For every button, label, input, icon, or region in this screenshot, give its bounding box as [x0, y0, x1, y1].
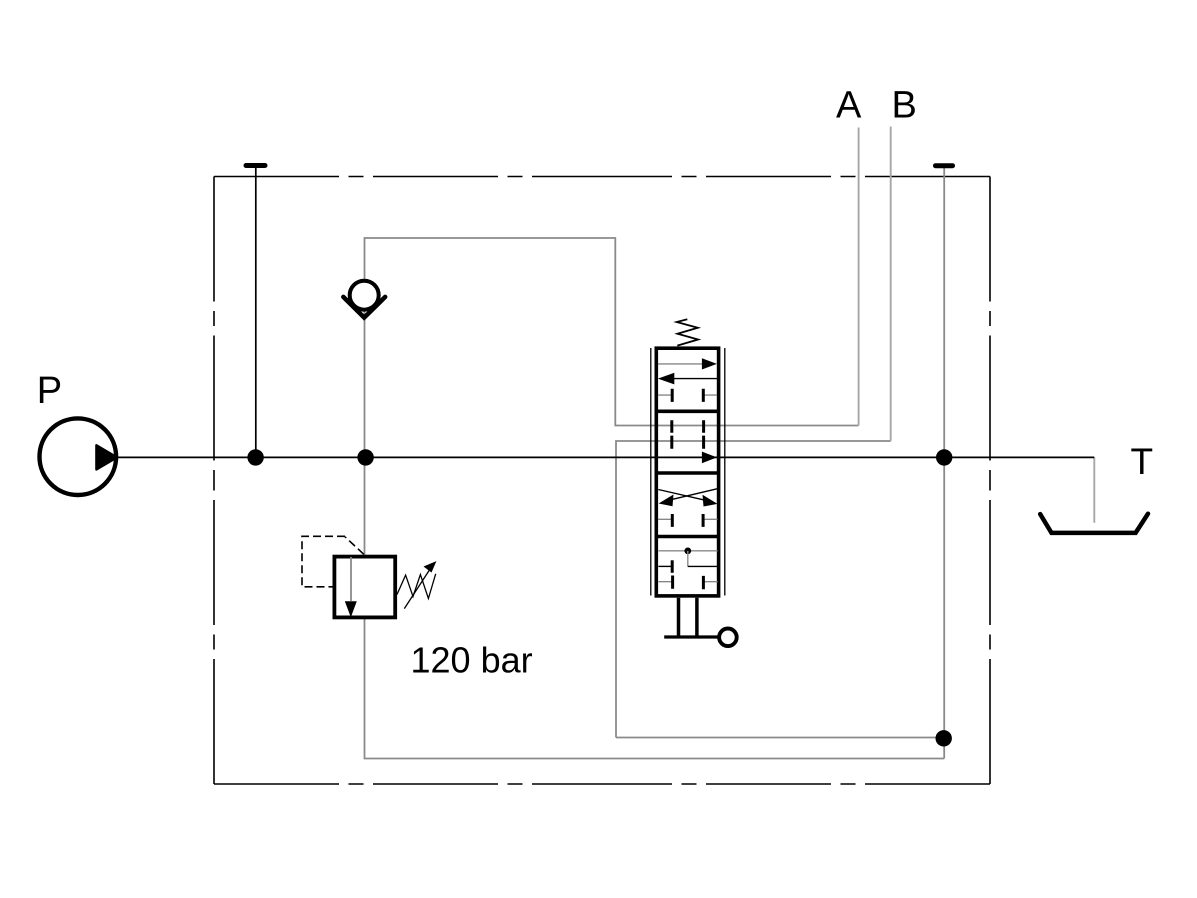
- junction dot (P / relief-check line): [357, 449, 373, 465]
- wire: B-level line through valve, with left drop to drain: [616, 441, 891, 738]
- DV1 box2: blocked port dashes: [672, 420, 704, 448]
- wire: port A riser: [858, 128, 860, 426]
- DV1 box3: crossed flow paths: [658, 489, 717, 507]
- junction dot (drain / tank riser): [936, 730, 952, 746]
- wire: pump pressure line P: [118, 456, 1095, 458]
- check valve CV1: [343, 281, 385, 318]
- pump P1: [40, 418, 118, 495]
- DV1 return spring (top): [677, 319, 698, 345]
- directional valve DV1: proportional side rails: [651, 348, 725, 596]
- svg-text:P: P: [37, 370, 62, 412]
- wire: top-left plug drop line: [255, 166, 257, 457]
- DV1 manual lever actuator (bottom): [664, 598, 737, 646]
- wire: port B riser: [890, 127, 892, 442]
- plugged port (top-left): [246, 163, 265, 168]
- svg-text:T: T: [1131, 441, 1154, 482]
- DV1 box3: blocked ports: [658, 514, 718, 527]
- DV1 box1: blocked ports: [658, 389, 717, 402]
- wire: tank-port riser (right side, from plug to bottom corner): [943, 167, 945, 759]
- DV1 box1: flow arrow right: [658, 358, 717, 369]
- wire: drain bottom run to junction: [616, 737, 944, 739]
- svg-text:A: A: [836, 85, 862, 127]
- svg-text:B: B: [892, 85, 917, 127]
- DV1 box1: flow arrow left: [658, 373, 717, 385]
- junction dot (P / plug line): [247, 449, 263, 465]
- directional valve DV1: body: [656, 348, 718, 596]
- relief valve pilot line (dashed): [302, 536, 364, 587]
- wire: relief valve outlet bottom run: [365, 619, 945, 759]
- junction dot (P / tank riser): [936, 449, 952, 465]
- relief valve RV1: [334, 557, 395, 618]
- svg-text:120 bar: 120 bar: [411, 640, 533, 681]
- wire: relief valve inlet from P junction: [364, 457, 366, 556]
- relief valve adjustment arrow: [404, 561, 436, 609]
- relief valve spring: [397, 574, 436, 599]
- plugged port (top-right): [936, 163, 953, 168]
- DV1 box2: P flow arrow: [702, 452, 717, 464]
- DV1 box4: blocked ports: [658, 560, 717, 589]
- wire: check valve top run to valve port A-level: [365, 238, 657, 457]
- wire: A-level line through valve to A corner: [656, 425, 859, 427]
- DV1 box4: pilot line with node dot: [658, 548, 717, 567]
- tank T1: [1040, 514, 1148, 533]
- directional valve DV1: position separators: [656, 411, 719, 536]
- enclosure boundary (dashed manifold outline): [214, 177, 990, 785]
- wire: tank drop line: [1093, 457, 1095, 522]
